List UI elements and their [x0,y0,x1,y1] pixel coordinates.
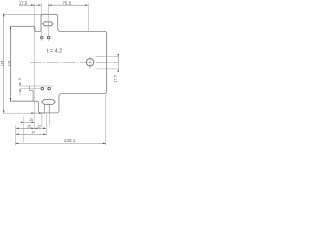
vertical extension x=48.4 top [47,3,49,41]
part outline [11,15,41,32]
svg-text:130.1: 130.1 [64,138,76,143]
ext x=22 for 15 [23,117,25,143]
left dim extension top y=14 is part edge; bottom ext line y=113 [4,112,36,114]
svg-text:17.5: 17.5 [19,0,28,5]
top dim line 17.5 [19,4,41,6]
top dim line 75.5 [48,4,88,6]
slot side edges below [43,104,45,113]
svg-text:75.5: 75.5 [62,0,71,5]
small 5 dim at left middle [19,82,21,87]
tab top and right side outline [11,14,107,113]
right dim line [117,54,119,72]
bottom row2 dim 15 at y=122 [21,121,35,123]
vertical extension x=41.4 top [40,3,42,41]
svg-text:105: 105 [7,61,11,67]
bottom dim row1 (hole spacing) arrows at y=113.5 [31,112,45,114]
svg-text:15: 15 [29,118,33,122]
svg-text:47: 47 [32,130,36,134]
arrows for left dim [3,13,5,16]
svg-text:t = 4.2: t = 4.2 [47,48,62,54]
svg-text:12: 12 [37,124,41,128]
top dim arrows (17.5) [31,4,34,6]
internal step / jog edges [29,86,33,101]
vertical extension x=42 bottom [41,114,43,128]
extension line from tab top to left dim [4,13,42,15]
main horizontal centerline (dash-dot) [30,61,118,63]
svg-text:17.5: 17.5 [112,75,117,83]
long vertical extension line x=34.2 [33,3,35,129]
bottom row4 dim 47 at y=136.2 [16,133,47,135]
vertical extension x=88.3 [87,3,89,31]
top small holes [41,36,44,39]
bottom slot (obround) [42,99,56,104]
big circle [86,59,93,66]
arrows for 75.5 [48,4,51,6]
svg-text:25: 25 [27,124,31,128]
left dim line x=3.7 (overall height) [3,13,5,113]
vertical centerline of big circle [89,56,91,69]
ext line y=88.6 to circle [20,88,41,90]
internal horizontal edge y=86 [20,85,53,87]
right dim extension lines [96,56,120,58]
svg-text:5: 5 [18,78,22,80]
ext verticals bottom [15,125,17,146]
bottom small holes [41,87,44,90]
top slot (obround) [43,22,54,26]
bottom row3 dims 25 and 12 at y=130.2 [16,127,47,129]
bottom row5 dim 130.1 at y=143.4 [15,142,106,144]
second left dim (along part edge x=10.6) arrows [10,26,12,29]
svg-text:174: 174 [1,61,5,67]
